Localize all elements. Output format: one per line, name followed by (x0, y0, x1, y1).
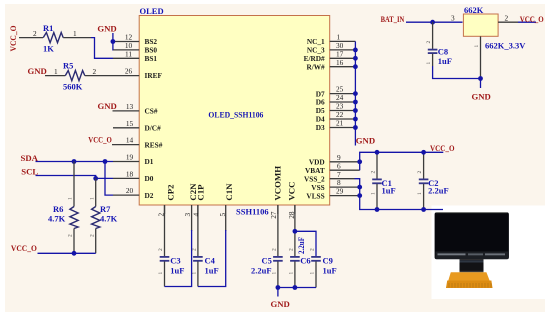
svg-text:13: 13 (126, 102, 134, 111)
svg-text:1uF: 1uF (323, 265, 337, 275)
wire right GND bus (NC/E/RD#/R/W#/D7-D3) (354, 41, 356, 145)
svg-text:IREF: IREF (145, 71, 163, 80)
svg-text:1: 1 (89, 197, 95, 200)
svg-text:R5: R5 (63, 61, 73, 71)
wire 662K pin1 to GND (480, 36, 482, 78)
regulator U2 662K (451, 5, 526, 50)
svg-text:GND: GND (472, 92, 491, 102)
capacitor C4 1uF (on C1P) (191, 205, 218, 287)
node junction C2 bottom (421, 207, 426, 212)
chip bottom pin numbers (rotated) (157, 211, 297, 219)
svg-text:VCC_O: VCC_O (430, 143, 455, 153)
svg-text:1: 1 (417, 192, 423, 195)
svg-text:2: 2 (417, 171, 423, 174)
svg-text:GND: GND (356, 136, 375, 146)
svg-text:11: 11 (125, 49, 132, 58)
chip bottom pin stubs (165, 205, 295, 231)
svg-text:2: 2 (371, 171, 377, 174)
resistor R6 4.7K (48, 162, 78, 254)
svg-text:VCC_O: VCC_O (88, 135, 112, 145)
svg-text:14: 14 (126, 136, 134, 145)
svg-text:OLED: OLED (140, 6, 164, 16)
svg-text:26: 26 (125, 67, 133, 76)
wire VCC to C9 (295, 231, 316, 256)
svg-text:1: 1 (371, 192, 377, 195)
svg-text:R6: R6 (53, 204, 63, 214)
svg-text:1: 1 (191, 272, 197, 275)
svg-text:29: 29 (336, 187, 344, 196)
chip bottom pin names (rotated) (165, 166, 296, 201)
svg-text:D/C#: D/C# (145, 124, 162, 133)
svg-text:15: 15 (126, 119, 134, 128)
chip left pin names (145, 37, 163, 200)
svg-text:R7: R7 (100, 204, 111, 214)
svg-text:1: 1 (68, 197, 74, 200)
svg-text:D1: D1 (145, 157, 154, 166)
node junction SDA/R6 (72, 159, 77, 164)
svg-text:C3: C3 (170, 256, 180, 266)
wire C8 bottom to 662K pin1 (433, 66, 481, 79)
svg-text:2: 2 (68, 234, 74, 237)
svg-text:1: 1 (426, 62, 432, 65)
svg-text:2: 2 (89, 234, 95, 237)
wire R1 pin1 to BS1 pin11 (63, 37, 91, 39)
capacitor C5 2.2uF (on VCOMH) (251, 205, 283, 288)
svg-text:1: 1 (73, 29, 77, 38)
node junction R6 bottom (72, 251, 77, 256)
wire VDD/VBAT to VCC_O rail (360, 152, 444, 170)
wire C4 bottom to C1N pin5 (198, 230, 226, 287)
wire VCC_O to R6/R7 bottoms (38, 252, 96, 254)
wire 662K pin2 to VCC_O (498, 21, 518, 23)
svg-text:C1P: C1P (196, 184, 206, 201)
svg-text:27: 27 (269, 211, 278, 219)
node junction VCC/C9 top (293, 229, 298, 234)
svg-text:GND: GND (97, 24, 116, 34)
capacitor C6 2.2uF (on VCC) (288, 205, 310, 288)
wire SDA to D1 pin19 (36, 161, 114, 163)
capacitor C3 1uF (on CP2) (158, 205, 184, 287)
node junction C2 top (421, 150, 426, 155)
node junction SDA/D2 (103, 159, 108, 164)
svg-text:2: 2 (33, 29, 37, 38)
svg-text:VCOMH: VCOMH (272, 166, 282, 201)
node junctions on right GND bus (353, 48, 358, 130)
power port GND (regulator) (472, 79, 491, 102)
node junction C1 bottom (375, 207, 380, 212)
svg-text:VCC_O: VCC_O (520, 14, 544, 24)
svg-text:RES#: RES# (145, 140, 163, 149)
svg-text:D3: D3 (316, 123, 325, 132)
chip left pin stubs (112, 42, 139, 196)
chip right pin stubs (330, 41, 360, 195)
svg-text:1: 1 (288, 272, 294, 275)
svg-text:C9: C9 (323, 256, 333, 266)
power port GND (CS# pin13) (98, 101, 117, 111)
svg-text:1uF: 1uF (170, 265, 184, 275)
svg-text:2: 2 (310, 248, 316, 251)
svg-text:2: 2 (93, 67, 97, 76)
svg-text:2.2uF: 2.2uF (296, 237, 306, 254)
svg-text:D2: D2 (145, 191, 154, 200)
svg-text:C6: C6 (300, 256, 310, 266)
svg-text:1: 1 (474, 45, 480, 48)
chip left pin numbers (125, 33, 134, 196)
wire GND rail C5/C6/C9 (278, 287, 316, 289)
svg-text:BS1: BS1 (145, 54, 158, 63)
svg-text:18: 18 (126, 169, 134, 178)
svg-text:2: 2 (288, 248, 294, 251)
svg-text:1: 1 (271, 272, 277, 275)
wire VSS_2/VSS/VLSS to ground rail (355, 179, 444, 210)
node junction C5/GND (276, 285, 281, 290)
wire C3 bottom to C2N pin3 (165, 230, 192, 287)
svg-text:VCC_O: VCC_O (8, 25, 18, 51)
svg-text:1uF: 1uF (205, 265, 219, 275)
svg-text:GND: GND (98, 101, 117, 111)
wire BAT_IN to 662K pin3 (406, 21, 463, 23)
svg-text:GND: GND (271, 299, 290, 309)
svg-text:4.7K: 4.7K (100, 214, 118, 224)
svg-text:21: 21 (336, 119, 344, 128)
svg-text:C5: C5 (262, 256, 272, 266)
svg-text:1: 1 (54, 67, 58, 76)
svg-text:1: 1 (310, 272, 316, 275)
resistor R7 4.7K (89, 178, 117, 253)
svg-text:OLED_SSH1106: OLED_SSH1106 (208, 110, 263, 120)
svg-text:16: 16 (336, 58, 344, 67)
svg-text:5: 5 (218, 213, 227, 217)
OLED module photo (432, 206, 546, 300)
svg-text:R/W#: R/W# (306, 62, 325, 71)
capacitor C2 2.2uF (417, 152, 449, 209)
svg-text:VCC: VCC (286, 182, 296, 201)
svg-text:C4: C4 (205, 256, 216, 266)
wire GND to R5 pin1 (45, 75, 65, 77)
wire VCC_O to R1 pin2 (19, 37, 43, 39)
wire R5 pin2 to IREF pin26 (85, 75, 113, 77)
wire D2 pin20 tie to SDA (105, 162, 113, 196)
wire SCL to D0 pin18 (36, 176, 114, 179)
svg-text:D0: D0 (145, 174, 154, 183)
node junction C6/GND (293, 285, 298, 290)
svg-text:GND: GND (28, 66, 47, 76)
svg-text:C1N: C1N (224, 183, 234, 201)
svg-text:SSH1106: SSH1106 (236, 207, 269, 217)
svg-text:662K: 662K (464, 5, 484, 15)
node junction VSS (357, 185, 362, 190)
svg-text:1uF: 1uF (382, 185, 396, 195)
capacitor C8 1uF (426, 22, 452, 66)
chip right pin names (304, 37, 325, 200)
svg-text:19: 19 (126, 153, 134, 162)
svg-text:662K_3.3V: 662K_3.3V (485, 41, 526, 51)
svg-text:CP2: CP2 (165, 184, 175, 201)
svg-text:2: 2 (271, 248, 277, 251)
svg-text:2.2uF: 2.2uF (251, 265, 272, 275)
svg-text:2: 2 (505, 13, 509, 22)
svg-text:1K: 1K (43, 44, 54, 54)
power port GND (top, BS2/BS0) (97, 24, 116, 50)
svg-text:4.7K: 4.7K (48, 214, 66, 224)
svg-text:BAT_IN: BAT_IN (381, 14, 405, 24)
net label VCC_O (RES# pin14) (88, 135, 112, 145)
svg-text:1uF: 1uF (438, 56, 452, 66)
svg-text:VCC_O: VCC_O (11, 243, 37, 253)
svg-text:R1: R1 (43, 23, 53, 33)
svg-text:1: 1 (158, 272, 164, 275)
resistor R1 1K (33, 23, 77, 54)
node junction pin1/GND (478, 76, 483, 81)
node junction VDD (357, 159, 362, 164)
svg-text:VLSS: VLSS (306, 191, 324, 200)
svg-text:20: 20 (126, 186, 134, 195)
op-chip U1 OLED_SSH1106 sheet-symbol body (139, 6, 330, 217)
svg-text:2: 2 (426, 41, 432, 44)
svg-text:4: 4 (191, 213, 200, 217)
resistor R5 560K (54, 61, 97, 92)
svg-text:2: 2 (191, 248, 197, 251)
capacitor C9 1uF (310, 248, 337, 288)
svg-text:2: 2 (158, 248, 164, 251)
svg-text:560K: 560K (63, 82, 83, 92)
svg-text:CS#: CS# (145, 107, 158, 116)
node junction C1 top (375, 150, 380, 155)
chip right pin numbers (336, 33, 344, 196)
svg-text:3: 3 (451, 13, 455, 22)
node junction SCL/R7 (93, 176, 98, 181)
capacitor C1 1uF (371, 152, 396, 209)
power port GND (bottom) (271, 288, 290, 309)
svg-text:2.2uF: 2.2uF (428, 185, 449, 195)
node junction VLSS (357, 193, 362, 198)
node junction BAT_IN/C8 (430, 20, 435, 25)
